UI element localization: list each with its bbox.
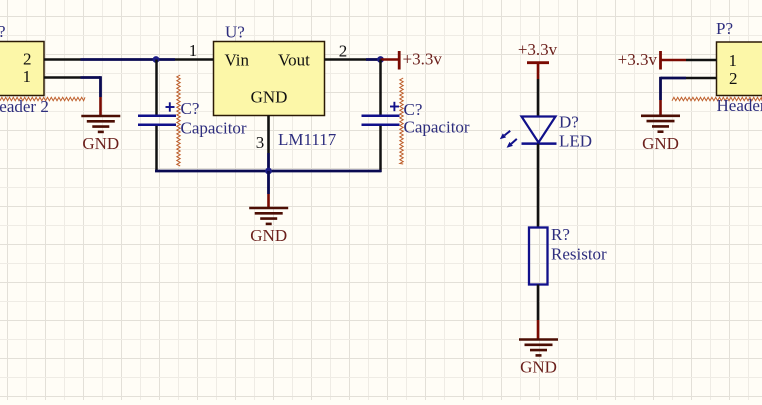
wire: top rail down to C? (left) (155, 60, 158, 115)
svg-text:GND: GND (82, 134, 119, 153)
wire: C? (left) to ground bus (155, 126, 158, 172)
designator C? (right) (404, 100, 423, 119)
svg-text:Header 2: Header 2 (717, 96, 762, 115)
power net label +3.3v (near C2) (403, 50, 443, 69)
svg-text:1: 1 (23, 67, 32, 86)
svg-text:+3.3v: +3.3v (518, 40, 558, 59)
capacitor C? (right) plates (362, 116, 400, 125)
svg-text:3: 3 (256, 133, 265, 152)
ground symbol GND (right header) (641, 116, 680, 153)
svg-text:Vout: Vout (278, 51, 310, 70)
power lead +3.3v (LED branch) (537, 63, 540, 79)
svg-text:GND: GND (520, 358, 557, 377)
power +3.3v bar (right header) (659, 51, 662, 70)
ground lead (left GND) (99, 97, 102, 116)
designator D? (559, 113, 579, 132)
pin 2 of right header (686, 69, 737, 88)
designator P? (right header) (716, 19, 733, 38)
svg-text:+3.3v: +3.3v (403, 50, 443, 69)
power +3.3v bar (near C2) (398, 51, 401, 70)
svg-text:2: 2 (339, 42, 348, 61)
connector P? (left, Header 2) body (0, 42, 44, 96)
svg-text:Resistor: Resistor (551, 245, 607, 264)
power lead +3.3v (capacitor branch) (381, 58, 399, 61)
capacitor C? (left) plates (138, 116, 176, 125)
junction at C? tap (156,59.5) (153, 56, 160, 63)
junction at (268.5,171) (265, 168, 272, 175)
ground symbol GND (middle) (249, 208, 288, 245)
error squiggle under right Header label (672, 97, 762, 100)
pin 3 of U? (GND) (256, 116, 269, 154)
svg-text:GND: GND (250, 226, 287, 245)
ground symbol GND (left header) (81, 116, 120, 153)
ground lead (LED branch GND) (537, 320, 540, 340)
power lead +3.3v (right header) (661, 59, 687, 62)
power net label +3.3v (right header) (618, 50, 658, 69)
resistor R? body (529, 228, 548, 285)
svg-text:Capacitor: Capacitor (404, 118, 470, 137)
pin 2 of U? (Vout) (325, 42, 367, 61)
svg-text:Capacitor: Capacitor (181, 119, 247, 138)
junction at (380.5,59.5) (377, 56, 384, 63)
error squiggle beside left capacitor label (177, 75, 180, 166)
svg-text:Header 2: Header 2 (0, 97, 49, 116)
label Capacitor (right) (404, 118, 470, 137)
wire: C? (right) to ground bus (379, 126, 382, 172)
pin 1 of right header (686, 51, 737, 70)
pin 2 of left header (23, 50, 80, 69)
error squiggle beside right capacitor label (400, 78, 403, 164)
label Header 2 (0, 97, 49, 116)
label Resistor (551, 245, 607, 264)
designator U? (225, 23, 245, 42)
wire: ground bus (155, 170, 382, 173)
svg-text:P?: P? (716, 19, 733, 38)
ground symbol GND (LED branch) (519, 340, 558, 377)
designator P? (clipped, left header) (0, 22, 6, 41)
wire: U? pin3 to ground bus (267, 153, 270, 171)
svg-text:+3.3v: +3.3v (618, 50, 658, 69)
wire: left header pin2 to U? Vin (81, 58, 176, 61)
svg-text:GND: GND (251, 88, 288, 107)
svg-text:D?: D? (559, 113, 579, 132)
power net label +3.3v (LED branch) (518, 40, 558, 59)
svg-text:C?: C? (181, 99, 200, 118)
designator C? (left) (181, 99, 200, 118)
regulator U? LM1117 body (214, 42, 325, 116)
svg-text:LM1117: LM1117 (278, 130, 337, 149)
svg-text:1: 1 (729, 51, 738, 70)
designator R? (551, 225, 570, 244)
connector P? (right, Header 2) body (717, 42, 762, 96)
svg-text:GND: GND (642, 134, 679, 153)
svg-text:P?: P? (0, 22, 6, 41)
label LM1117 (278, 130, 337, 149)
label Capacitor (left) (181, 119, 247, 138)
svg-text:C?: C? (404, 100, 423, 119)
wire: U? pin2 to +3.3v (366, 58, 381, 61)
wire: resistor R? to GND (537, 285, 540, 321)
wire: left header pin1 to GND (81, 76, 101, 97)
svg-text:2: 2 (23, 50, 32, 69)
svg-text:R?: R? (551, 225, 570, 244)
polarity + mark (left capacitor) (166, 102, 175, 111)
wire: +3.3v rail down to C? (right) (379, 60, 382, 115)
label LED (559, 132, 592, 151)
pin 1 of left header (23, 67, 81, 86)
ground lead (right header GND) (659, 100, 662, 116)
wire: +3.3v to LED anode (537, 79, 540, 117)
svg-text:1: 1 (189, 41, 198, 60)
LED emission arrows (500, 131, 517, 148)
power +3.3v bar (LED branch) (527, 61, 549, 64)
svg-text:Vin: Vin (225, 51, 250, 70)
label Header 2 (right, clipped) (717, 96, 762, 115)
ground lead (middle GND) (267, 171, 270, 208)
error squiggle under Header 2 (0, 97, 85, 100)
svg-text:LED: LED (559, 132, 592, 151)
LED D? symbol (triangle + cathode bar) (522, 117, 557, 144)
polarity + mark (right capacitor) (390, 102, 399, 111)
svg-text:2: 2 (729, 69, 738, 88)
wire: right header pin2 to GND (661, 77, 687, 100)
wire: LED cathode to resistor R? (537, 144, 540, 228)
svg-text:U?: U? (225, 23, 245, 42)
pin 1 of U? (Vin) (175, 41, 214, 60)
